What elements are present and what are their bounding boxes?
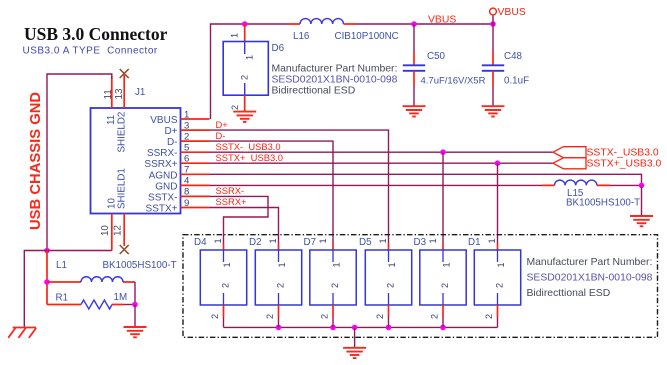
svg-text:SSTX-_USB3.0: SSTX-_USB3.0 bbox=[587, 147, 659, 158]
ground (under C48) bbox=[482, 106, 505, 116]
svg-text:SSTX-: SSTX- bbox=[148, 192, 177, 203]
svg-text:J1: J1 bbox=[135, 87, 145, 98]
svg-text:SSTX+_USB3.0: SSTX+_USB3.0 bbox=[216, 152, 283, 163]
wire: D6 bottom stub bbox=[244, 95, 246, 111]
wire: C50 top lead bbox=[413, 24, 415, 52]
svg-text:1: 1 bbox=[428, 238, 438, 243]
svg-text:D6: D6 bbox=[272, 43, 285, 54]
svg-text:SSTX+_USB3.0: SSTX+_USB3.0 bbox=[587, 159, 662, 170]
svg-text:12: 12 bbox=[113, 225, 124, 236]
junction (D7 bus) bbox=[330, 325, 336, 331]
ground (L15/AGND) bbox=[630, 216, 653, 226]
svg-text:3: 3 bbox=[184, 120, 189, 131]
ground (under C50) bbox=[403, 106, 426, 116]
svg-text:2: 2 bbox=[240, 75, 250, 80]
wire: L1 right drop bbox=[134, 282, 136, 305]
svg-text:D5: D5 bbox=[359, 237, 372, 248]
svg-text:SSTX+: SSTX+ bbox=[146, 204, 178, 215]
J1 pin names bbox=[144, 115, 177, 215]
svg-text:D1: D1 bbox=[468, 237, 481, 248]
D6 manufacturer text bbox=[272, 64, 398, 97]
wire: down to D3 bbox=[442, 152, 444, 243]
svg-text:1: 1 bbox=[245, 55, 255, 60]
svg-text:9: 9 bbox=[184, 198, 189, 209]
inductor L15 bbox=[542, 180, 640, 208]
junction (C50 tap) bbox=[411, 21, 417, 27]
svg-text:SSRX+: SSRX+ bbox=[216, 196, 248, 207]
wire: SSRX+ (pin9) to D2 bbox=[210, 208, 279, 244]
svg-text:1: 1 bbox=[222, 262, 232, 267]
svg-text:R1: R1 bbox=[56, 292, 69, 303]
svg-text:1: 1 bbox=[213, 238, 223, 243]
svg-text:10: 10 bbox=[100, 225, 111, 236]
svg-text:D4: D4 bbox=[194, 237, 207, 248]
svg-text:SHIELD1: SHIELD1 bbox=[117, 168, 128, 209]
svg-text:D3: D3 bbox=[414, 237, 427, 248]
svg-text:D+: D+ bbox=[216, 119, 229, 130]
svg-text:2: 2 bbox=[265, 314, 275, 319]
svg-text:2: 2 bbox=[484, 314, 494, 319]
svg-text:BK1005HS100-T: BK1005HS100-T bbox=[103, 260, 177, 271]
svg-text:1: 1 bbox=[441, 262, 451, 267]
junction (D1 tap) bbox=[495, 160, 501, 166]
svg-text:USB 3.0 Connector: USB 3.0 Connector bbox=[24, 24, 168, 44]
junction (C48 / VBUS tap) bbox=[490, 21, 496, 27]
svg-text:2: 2 bbox=[276, 283, 286, 288]
junction (L1 tap) bbox=[44, 279, 50, 285]
J1 bottom pin stubs 10 and 12 bbox=[111, 214, 113, 251]
inductor L16 bbox=[288, 19, 399, 42]
ESD group manufacturer text bbox=[527, 257, 653, 299]
svg-text:2: 2 bbox=[386, 283, 396, 288]
ground (ESD bus) bbox=[343, 348, 366, 358]
ESD diode D1 bbox=[468, 237, 521, 327]
svg-text:VBUS: VBUS bbox=[150, 115, 178, 126]
svg-text:2: 2 bbox=[184, 131, 189, 142]
svg-text:L16: L16 bbox=[293, 31, 310, 42]
svg-text:5: 5 bbox=[184, 143, 189, 154]
wire: pin10 to chassis drop bbox=[24, 251, 112, 328]
wire: down to ground bbox=[641, 185, 643, 216]
svg-text:2: 2 bbox=[330, 283, 340, 288]
wire: SSRX- (pin8) to D4 bbox=[210, 196, 269, 243]
svg-text:AGND: AGND bbox=[149, 170, 178, 181]
svg-text:1: 1 bbox=[277, 262, 287, 267]
svg-text:1M: 1M bbox=[114, 292, 128, 303]
junction (D2 bus) bbox=[276, 325, 282, 331]
junction (D5 bus) bbox=[386, 325, 392, 331]
no-ERC X on pin 13 bbox=[120, 69, 129, 78]
off-page port SSTX-_USB3.0 bbox=[553, 147, 586, 158]
svg-text:Manufacturer Part Number:: Manufacturer Part Number: bbox=[527, 257, 653, 268]
svg-text:USB3.0 A TYPE Connector: USB3.0 A TYPE Connector bbox=[23, 46, 158, 57]
svg-text:SSRX-: SSRX- bbox=[216, 185, 245, 196]
wire: down to D1 bbox=[497, 163, 499, 243]
svg-text:1: 1 bbox=[318, 238, 328, 243]
svg-text:1: 1 bbox=[487, 238, 497, 243]
wire: D6 top stub bbox=[244, 24, 246, 42]
svg-text:VBUS: VBUS bbox=[428, 15, 456, 26]
ground (under R1) bbox=[124, 327, 147, 337]
svg-text:2: 2 bbox=[319, 314, 329, 319]
capacitor C48 bbox=[482, 51, 529, 87]
ESD diode D4 bbox=[194, 237, 247, 327]
ESD diode D2 bbox=[249, 237, 302, 327]
svg-text:SESD0201X1BN-0010-098: SESD0201X1BN-0010-098 bbox=[272, 75, 398, 86]
svg-text:1: 1 bbox=[184, 109, 189, 120]
dashed ESD group box bbox=[183, 235, 658, 338]
svg-text:2: 2 bbox=[210, 314, 220, 319]
svg-text:0.1uF: 0.1uF bbox=[504, 76, 529, 87]
svg-text:Manufacturer Part Number:: Manufacturer Part Number: bbox=[272, 64, 398, 75]
svg-text:1: 1 bbox=[230, 33, 240, 38]
junction (D3 bus) bbox=[440, 325, 446, 331]
svg-text:D-: D- bbox=[216, 130, 226, 141]
ESD diode D6 bbox=[223, 33, 284, 110]
junction (D3 tap) bbox=[440, 149, 446, 155]
svg-text:8: 8 bbox=[184, 187, 189, 198]
ESD diode D5 bbox=[359, 237, 412, 327]
wire: SSTX- (pin5) to port bbox=[210, 151, 554, 153]
wire: SSTX+ (pin6) to port bbox=[210, 162, 554, 164]
wire: chassis loop top (to pin 11) bbox=[47, 74, 112, 251]
wire: bottom ground bus bbox=[224, 326, 498, 328]
svg-text:2: 2 bbox=[495, 283, 505, 288]
J1 right-side pin stubs bbox=[181, 119, 210, 208]
svg-text:2: 2 bbox=[230, 105, 240, 110]
svg-text:SHIELD2: SHIELD2 bbox=[117, 112, 128, 153]
svg-text:SSRX-: SSRX- bbox=[147, 148, 178, 159]
svg-text:Bidirecttional ESD: Bidirecttional ESD bbox=[272, 86, 356, 97]
junction (AGND/L15) bbox=[639, 183, 645, 189]
svg-text:1: 1 bbox=[378, 238, 388, 243]
svg-text:SSTX-_USB3.0: SSTX-_USB3.0 bbox=[216, 141, 281, 152]
svg-text:2: 2 bbox=[375, 314, 385, 319]
svg-text:D7: D7 bbox=[304, 237, 317, 248]
svg-text:SESD0201X1BN-0010-098: SESD0201X1BN-0010-098 bbox=[527, 273, 653, 284]
svg-text:CIB10P100NC: CIB10P100NC bbox=[335, 31, 399, 42]
svg-text:11: 11 bbox=[106, 115, 117, 125]
svg-text:SSRX+: SSRX+ bbox=[144, 159, 177, 170]
junction (chassis loop) bbox=[44, 248, 50, 254]
connector J1 bbox=[91, 87, 181, 236]
chassis ground bbox=[8, 328, 36, 338]
junction (ground tap) bbox=[352, 325, 358, 331]
svg-text:1: 1 bbox=[268, 238, 278, 243]
svg-text:D-: D- bbox=[167, 137, 178, 148]
wire: AGND (pin7) bbox=[210, 174, 642, 185]
svg-text:D2: D2 bbox=[249, 237, 262, 248]
svg-text:C50: C50 bbox=[427, 51, 446, 62]
wire: C50 bottom lead bbox=[413, 71, 415, 87]
svg-text:2: 2 bbox=[440, 283, 450, 288]
svg-text:L1: L1 bbox=[56, 260, 67, 271]
J1 top pin stubs 11 and 13 bbox=[111, 76, 113, 108]
wire: D- (pin2) to D7 bbox=[210, 141, 334, 243]
svg-text:1: 1 bbox=[496, 262, 506, 267]
wire: L15 to junction bbox=[610, 184, 642, 186]
wire: bus to ground bbox=[354, 327, 356, 347]
svg-text:1: 1 bbox=[387, 262, 397, 267]
svg-text:4: 4 bbox=[184, 176, 190, 187]
svg-text:2: 2 bbox=[429, 314, 439, 319]
svg-text:6: 6 bbox=[184, 154, 189, 165]
junction (D6 tap) bbox=[242, 21, 248, 27]
svg-text:VBUS: VBUS bbox=[498, 7, 526, 18]
svg-text:D+: D+ bbox=[164, 126, 177, 137]
ESD diode D3 bbox=[414, 237, 467, 327]
svg-text:2: 2 bbox=[221, 283, 231, 288]
wire: left red riser to L1/R1 bbox=[46, 251, 48, 305]
resistor R1 bbox=[47, 292, 135, 309]
svg-text:USB CHASSIS GND: USB CHASSIS GND bbox=[28, 92, 44, 230]
off-page port SSTX+_USB3.0 bbox=[553, 158, 586, 169]
wire: to ground under R1 bbox=[134, 305, 136, 328]
wire: C48 top lead bbox=[492, 24, 494, 52]
svg-text:Bidirecttional ESD: Bidirecttional ESD bbox=[527, 288, 611, 299]
power port VBUS bbox=[490, 7, 526, 24]
svg-text:1: 1 bbox=[331, 262, 341, 267]
ESD diode D7 bbox=[304, 237, 357, 327]
no-ERC X on pin 12 bbox=[120, 245, 129, 254]
wire: C48 bottom lead bbox=[492, 71, 494, 87]
svg-text:7: 7 bbox=[184, 165, 189, 176]
svg-text:C48: C48 bbox=[504, 51, 523, 62]
wire: D+ (pin3) to D5 bbox=[210, 130, 389, 243]
capacitor C50 bbox=[403, 51, 486, 87]
ground (under D6) bbox=[233, 112, 256, 122]
inductor L1 bbox=[47, 260, 177, 282]
J1 pin numbers 1,3,2,5,6,7,4,8,9 bbox=[184, 109, 190, 209]
svg-text:GND: GND bbox=[155, 181, 177, 192]
junction (R1/L1 right) bbox=[132, 302, 138, 308]
wire: GND (pin4) to L15 bbox=[210, 184, 543, 186]
wire: top bus VBUS (pin1 up and across to C48) bbox=[211, 24, 494, 119]
svg-text:4.7uF/16V/X5R: 4.7uF/16V/X5R bbox=[421, 76, 486, 87]
svg-text:BK1005HS100-T: BK1005HS100-T bbox=[566, 198, 640, 209]
